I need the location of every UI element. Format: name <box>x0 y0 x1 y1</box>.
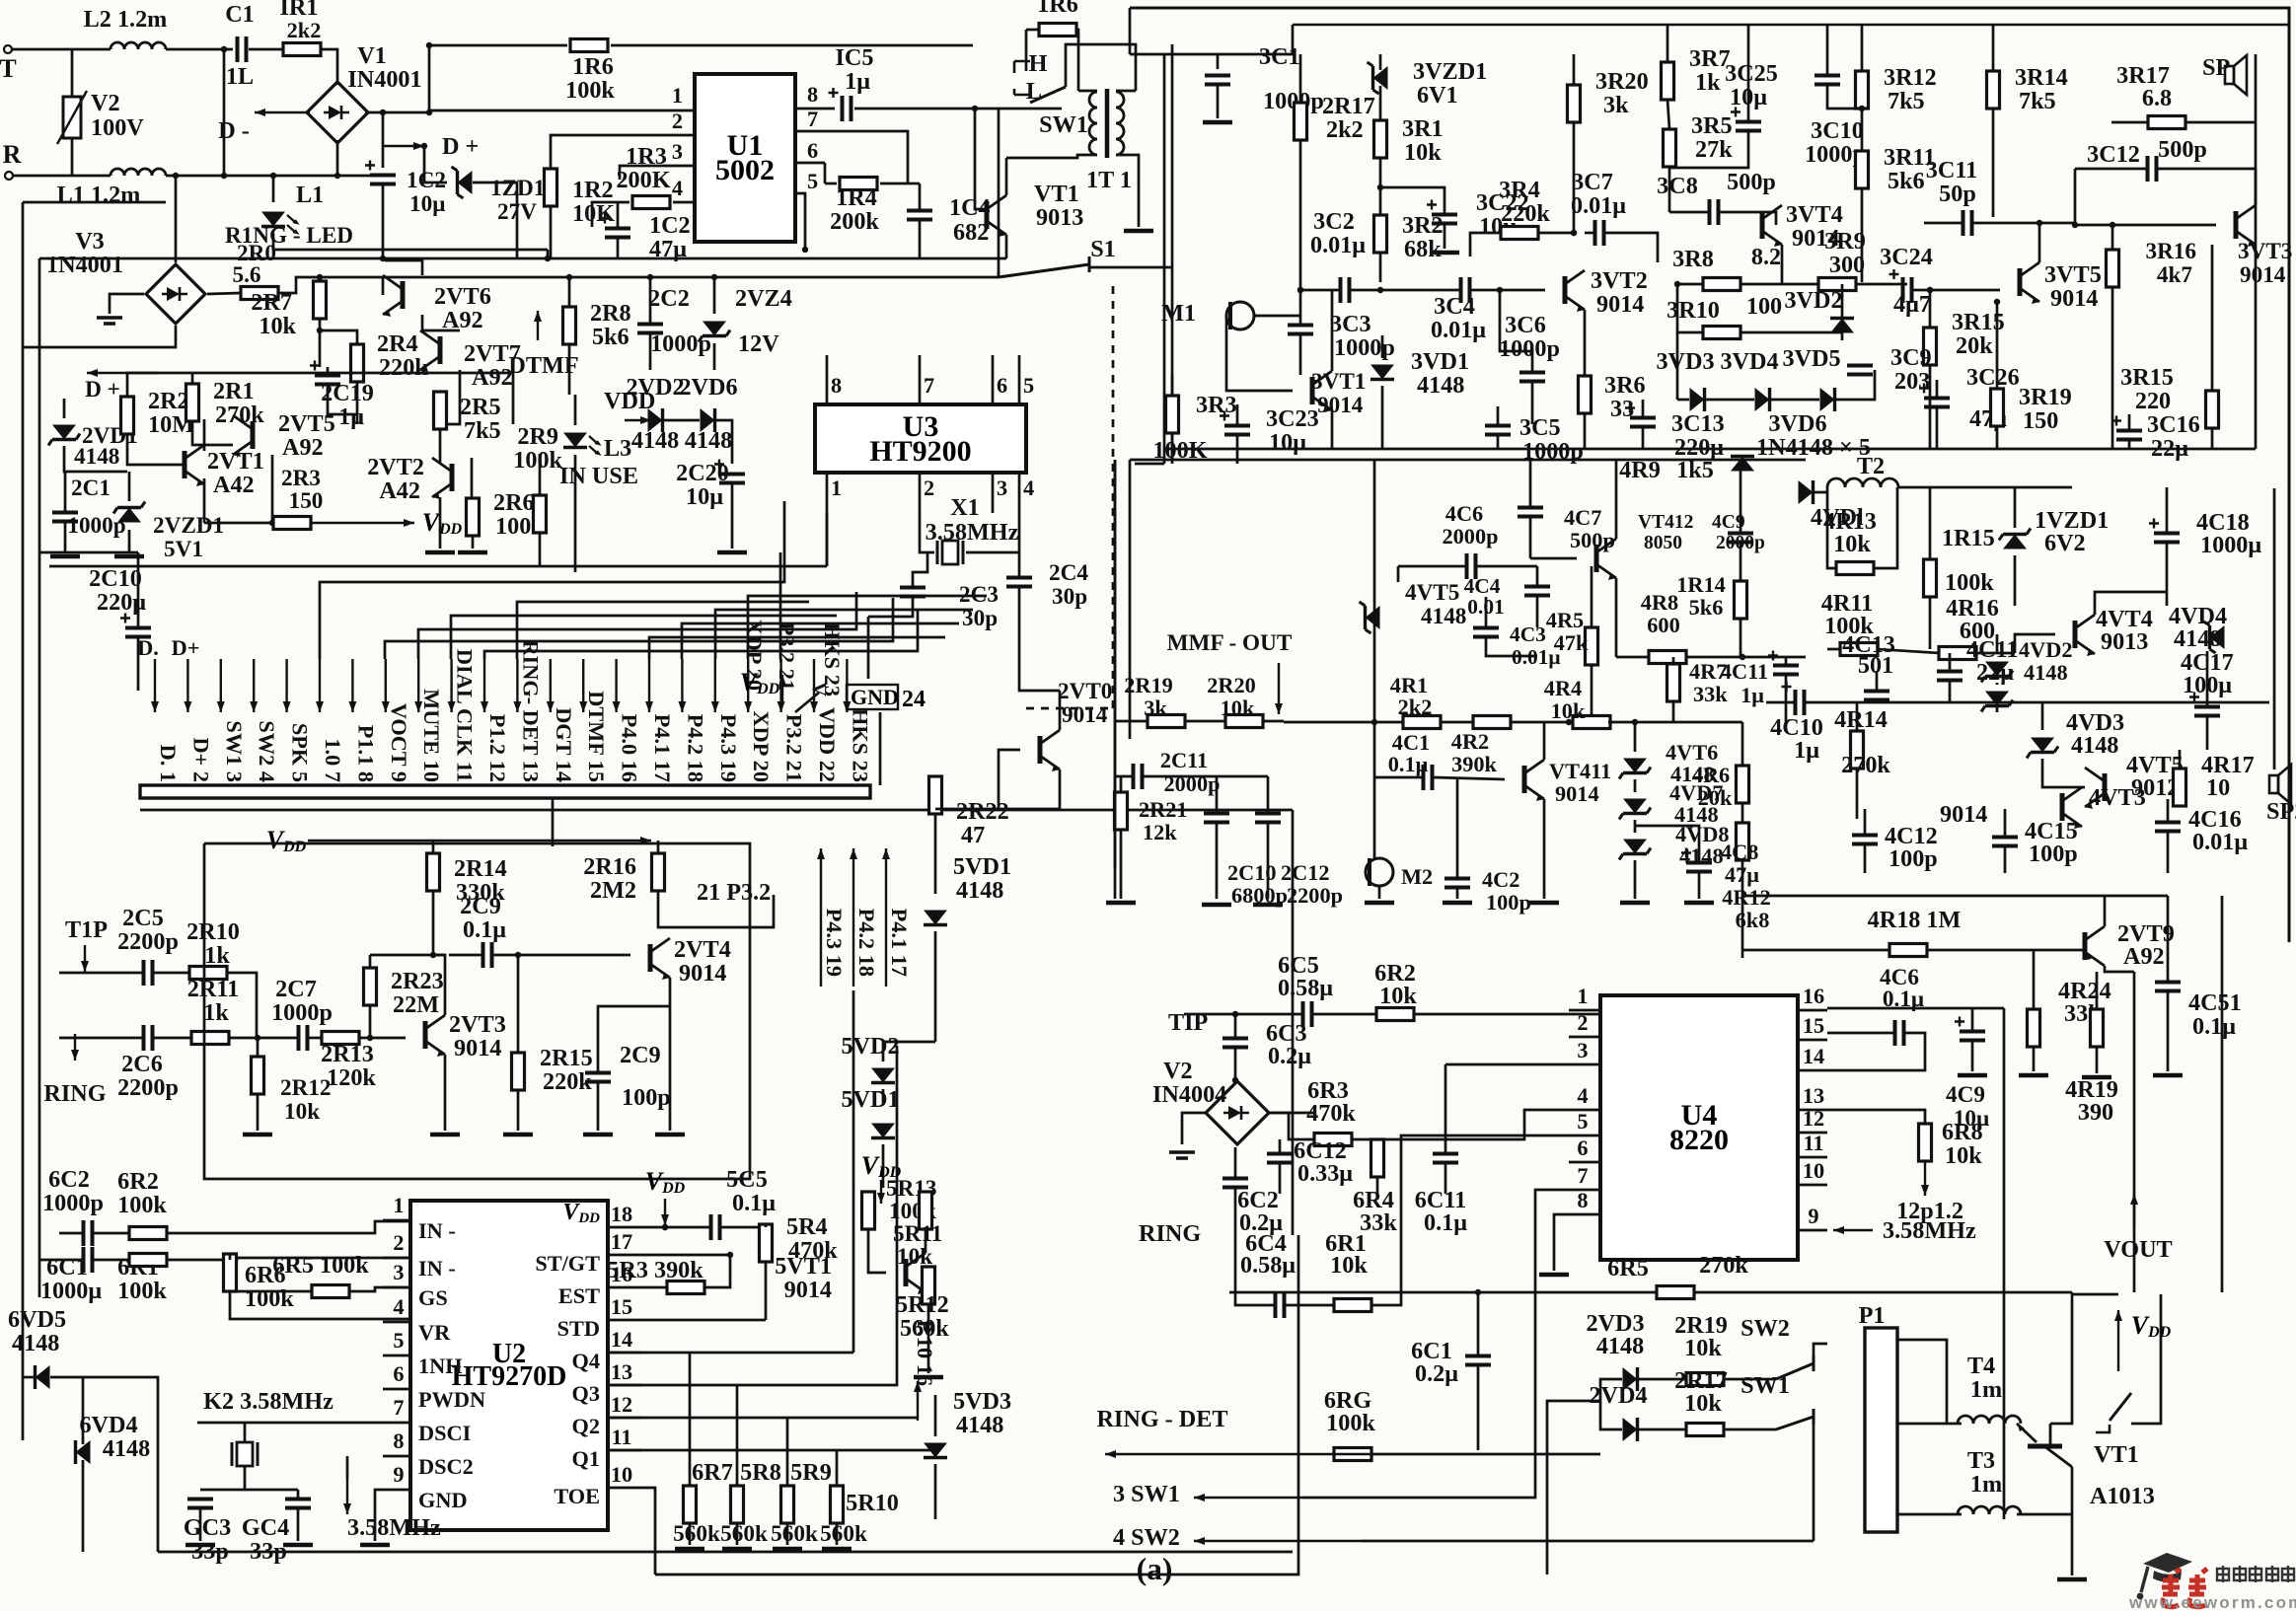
label VDD <box>266 826 307 855</box>
label 4R17 <box>2201 752 2255 778</box>
arrow VDD <box>877 1180 885 1204</box>
svg-text:12: 12 <box>1803 1106 1824 1131</box>
label <box>0 0 1 1</box>
wire main mid rail <box>1806 701 2269 704</box>
svg-text:100k: 100k <box>1326 1410 1375 1436</box>
wire <box>641 1255 730 1287</box>
arrow connector pin <box>547 659 555 712</box>
label 3C8 <box>1657 173 1698 199</box>
svg-text:P4.0 16: P4.0 16 <box>618 714 642 782</box>
wire <box>1144 775 1268 778</box>
resistor 6RG 100k <box>1334 1448 1371 1461</box>
svg-text:2VT3: 2VT3 <box>449 1011 506 1038</box>
label 2C2 <box>648 285 690 312</box>
capacitor 2C1 <box>52 513 78 522</box>
resistor 3R5 <box>1664 129 1676 167</box>
junction <box>317 328 323 333</box>
svg-text:IN -: IN - <box>418 1218 456 1243</box>
label 3R2 <box>1402 212 1444 239</box>
label RING - DET <box>1096 1406 1227 1432</box>
wire <box>550 205 553 258</box>
label 4VD3 <box>2066 709 2124 736</box>
label 20k <box>1698 785 1733 810</box>
svg-text:10k: 10k <box>1379 983 1417 1009</box>
label 10μ <box>1479 213 1517 240</box>
capacitor 6C4 0.58u <box>1276 1292 1285 1318</box>
label 6R2 <box>117 1168 159 1195</box>
wire <box>2179 750 2182 769</box>
capacitor 6C2 <box>84 1220 93 1246</box>
svg-text:2C11: 2C11 <box>1160 748 1208 772</box>
wire pin14 loop <box>1827 1033 1925 1070</box>
label 3VT4 <box>1786 201 1843 228</box>
wire <box>1470 233 1502 256</box>
arrow D+ <box>87 369 158 377</box>
label 4 <box>1577 1083 1588 1108</box>
svg-text:3C5: 3C5 <box>1519 414 1561 441</box>
label 11 <box>611 1425 631 1449</box>
svg-text:1000μ: 1000μ <box>2200 532 2261 558</box>
label 2k2 <box>1326 116 1364 143</box>
label 10k <box>1551 698 1586 723</box>
svg-text:MUTE 10: MUTE 10 <box>419 689 444 782</box>
wire <box>1444 1064 1447 1153</box>
label SW1 3 <box>222 720 247 782</box>
label 390 <box>2078 1099 2113 1126</box>
wire <box>328 386 357 414</box>
svg-text:V3: V3 <box>75 228 105 255</box>
junction <box>221 173 227 179</box>
capacitor 4C9 10u <box>1955 1017 1985 1041</box>
wire <box>1897 1340 1947 1424</box>
capacitor 5C5 0.1u <box>711 1214 720 1240</box>
svg-text:6C2: 6C2 <box>48 1166 90 1193</box>
svg-text:P3.2 21: P3.2 21 <box>782 714 807 782</box>
label 3R11 <box>1884 144 1935 171</box>
wire <box>71 49 74 97</box>
arrow VDD rail <box>308 837 651 844</box>
wire <box>2166 544 2169 606</box>
capacitor 3C2 <box>1341 277 1350 303</box>
capacitor 1C2 <box>365 161 396 184</box>
label X1 <box>950 494 980 521</box>
label 2R5 <box>460 394 501 420</box>
arrow VDD <box>661 1199 669 1225</box>
wire <box>64 472 67 512</box>
wire <box>1996 683 1999 685</box>
svg-text:560k: 560k <box>720 1521 768 1547</box>
junction <box>566 274 572 280</box>
label 4k7 <box>2157 262 2192 288</box>
label 1m <box>1970 1471 2002 1498</box>
inductor L2 <box>111 42 166 49</box>
svg-text:6R2: 6R2 <box>117 1168 159 1195</box>
svg-text:1C2: 1C2 <box>407 168 446 193</box>
label 200K <box>616 167 670 193</box>
wire <box>175 176 178 262</box>
wire <box>1234 1049 1237 1080</box>
label 16 <box>611 1262 632 1286</box>
resistor 4R11 100k <box>1840 643 1878 656</box>
wire <box>199 1508 202 1541</box>
wire <box>127 434 185 465</box>
label 2R19 <box>1674 1312 1728 1339</box>
svg-text:P4.3 19: P4.3 19 <box>716 714 741 782</box>
label MUTE 10 <box>419 689 444 782</box>
resistor 2R17b 10k <box>1686 1424 1724 1436</box>
wire U3 pin 6 <box>992 355 995 404</box>
wire <box>424 146 447 183</box>
ground <box>425 550 455 555</box>
svg-text:4148: 4148 <box>631 427 679 454</box>
wire <box>1171 433 1174 464</box>
winding 1T1 primary <box>1089 92 1097 155</box>
wire <box>1672 657 1675 664</box>
svg-text:2R8: 2R8 <box>590 300 631 327</box>
svg-text:3k: 3k <box>1144 696 1167 720</box>
label 2R17 <box>1674 1367 1728 1394</box>
zener 4VD3 <box>2027 738 2058 759</box>
resistor 5R13 <box>862 1192 875 1229</box>
junction <box>1674 281 1680 287</box>
svg-text:1R4: 1R4 <box>836 184 877 211</box>
junction <box>317 274 323 280</box>
svg-text:VOUT: VOUT <box>2104 1236 2172 1263</box>
label 10μ <box>409 191 445 217</box>
wire Q3 <box>608 1046 897 1385</box>
svg-text:4C6: 4C6 <box>1445 501 1483 526</box>
wire <box>320 49 337 85</box>
watermark eeworm logo <box>2137 1553 2192 1599</box>
label 2R4 <box>377 330 418 357</box>
label P3.2 21 <box>775 622 799 691</box>
svg-text:2R16: 2R16 <box>583 853 636 880</box>
ground <box>243 1133 272 1137</box>
wire <box>1299 54 1302 103</box>
wire <box>257 1094 259 1131</box>
wire Q1 <box>608 1449 935 1452</box>
diode 2VD4 <box>1623 1418 1638 1441</box>
svg-text:5C5: 5C5 <box>726 1166 768 1193</box>
svg-text:L3: L3 <box>604 435 631 462</box>
terminal <box>5 172 13 180</box>
wire U3 pin 2 <box>919 473 922 513</box>
label VDD <box>740 668 780 697</box>
label 3C11 <box>1926 157 1977 183</box>
label 1000p <box>650 330 711 357</box>
wire <box>439 497 442 549</box>
label 4148 <box>1670 762 1715 786</box>
label 100k <box>1326 1410 1375 1436</box>
label 33p <box>191 1538 229 1565</box>
svg-text:9014: 9014 <box>1555 781 1599 806</box>
label 6VD5 <box>8 1306 66 1333</box>
transistor 2VT6 <box>383 275 403 317</box>
arrow connector pin <box>711 659 719 712</box>
svg-text:20k: 20k <box>1698 785 1733 810</box>
wire <box>715 420 732 464</box>
capacitor 4C15 100p <box>1992 838 2018 846</box>
label 2R6 <box>493 489 535 516</box>
junction <box>662 1224 668 1230</box>
wire <box>598 1006 670 1072</box>
wire <box>137 552 140 627</box>
svg-text:15: 15 <box>611 1294 632 1319</box>
wire <box>22 202 25 1440</box>
label 12 <box>611 1392 632 1417</box>
svg-text:17: 17 <box>611 1229 632 1254</box>
label 1k <box>1695 69 1721 96</box>
svg-text:P4.2 18: P4.2 18 <box>854 909 879 977</box>
junction <box>545 256 551 261</box>
wire <box>658 891 774 927</box>
diode 5VD2 <box>871 1068 895 1083</box>
wire <box>1370 1453 1600 1456</box>
wire <box>1827 86 1862 109</box>
label 100k <box>889 1199 936 1224</box>
resistor 3R19 <box>1991 389 2004 426</box>
wire <box>592 202 630 227</box>
wire <box>1666 25 1669 62</box>
arrow P4.2 18 <box>850 848 857 987</box>
wire <box>1747 25 1750 121</box>
label 1000p <box>271 999 333 1026</box>
svg-text:220: 220 <box>2135 388 2171 414</box>
ground <box>360 1543 390 1548</box>
label 1μ <box>1794 737 1819 764</box>
label 4148 <box>2024 660 2068 685</box>
label T <box>0 54 17 83</box>
varistor V2 <box>57 91 87 144</box>
wire <box>428 45 431 112</box>
label 2R14 <box>454 855 507 882</box>
wire <box>919 221 922 258</box>
svg-text:4148: 4148 <box>2071 732 2118 759</box>
wire <box>1331 290 1334 371</box>
svg-text:M2: M2 <box>1401 864 1433 889</box>
wire stub <box>1397 566 1400 582</box>
wire <box>197 1422 383 1425</box>
label 2C9 <box>460 893 501 919</box>
svg-text:2R4: 2R4 <box>377 330 418 357</box>
svg-text:3C7: 3C7 <box>1572 169 1613 195</box>
svg-text:1: 1 <box>1577 984 1588 1008</box>
svg-text:10K: 10K <box>572 200 615 227</box>
svg-text:V2: V2 <box>1163 1058 1193 1084</box>
capacitor 2C5 <box>144 960 153 986</box>
wire <box>1537 232 1574 235</box>
label 2R23 <box>391 968 444 994</box>
dashed boundary <box>1112 286 1115 708</box>
label 300 <box>1829 252 1865 278</box>
wire <box>1235 1301 1275 1305</box>
svg-text:500p: 500p <box>1727 169 1776 195</box>
zener 4VT6 <box>1619 759 1651 779</box>
wire left boundary <box>1114 460 1117 899</box>
resistor 1R14 5k6 <box>1735 581 1747 619</box>
junction <box>221 46 227 52</box>
resistor 2R22 <box>929 776 942 814</box>
wire <box>1254 315 1300 318</box>
junction <box>255 1035 260 1041</box>
wire <box>1020 690 1060 693</box>
label 2VT5 <box>278 410 335 437</box>
svg-text:3C1: 3C1 <box>1259 43 1300 70</box>
label 3VZD1 <box>1413 58 1487 85</box>
svg-text:0.1μ: 0.1μ <box>1388 752 1429 776</box>
ground <box>655 1133 685 1137</box>
capacitor 6C1 0.2u <box>1465 1356 1491 1365</box>
svg-text:1000p: 1000p <box>42 1190 104 1216</box>
label 22M <box>393 991 439 1018</box>
wire <box>663 419 700 422</box>
svg-text:1.0 7: 1.0 7 <box>321 738 345 782</box>
junction <box>1475 1289 1481 1295</box>
wire <box>1471 289 1545 292</box>
wire <box>908 183 920 185</box>
svg-text:VT411: VT411 <box>1549 759 1611 783</box>
label 4C16 <box>2188 806 2242 833</box>
label 6R3 <box>1307 1077 1349 1104</box>
junction <box>1497 287 1503 293</box>
arrow T1P <box>81 945 89 972</box>
wire <box>1440 721 1474 724</box>
label 1m <box>1970 1376 2002 1403</box>
arrow connector pin <box>348 659 356 712</box>
label 100k <box>117 1278 167 1304</box>
resistor 4R18 1M <box>1889 944 1927 957</box>
label 2R2 <box>148 388 189 414</box>
wire <box>574 395 577 425</box>
svg-text:3C6: 3C6 <box>1505 312 1546 338</box>
wire <box>1668 167 1671 212</box>
transistor VT412 8050 <box>1596 539 1616 580</box>
wire U4 pin 4 <box>1569 1109 1600 1112</box>
resistor 3R7 <box>1662 62 1674 100</box>
wire <box>348 1287 410 1291</box>
svg-text:2C12: 2C12 <box>1281 860 1330 885</box>
label 1N4001 <box>46 252 123 278</box>
svg-text:11: 11 <box>611 1425 631 1449</box>
arrow P4.3 19 <box>817 848 825 987</box>
label 4C8 <box>1721 840 1758 864</box>
ground <box>50 554 80 559</box>
wire <box>1485 597 1488 627</box>
edge connector P-bus <box>140 785 870 798</box>
svg-text:10: 10 <box>2206 774 2230 801</box>
svg-text:8050: 8050 <box>1644 533 1682 553</box>
label 4148 <box>956 1412 1003 1438</box>
resistor 5R4 <box>760 1224 773 1262</box>
switch S1 <box>999 256 1089 277</box>
svg-text:12V: 12V <box>738 330 779 357</box>
ground <box>1958 1073 1987 1078</box>
label 3C3 <box>1330 311 1371 337</box>
svg-text:4C3: 4C3 <box>1510 622 1546 646</box>
label 1000p <box>1499 335 1560 362</box>
wire <box>568 277 571 307</box>
resistor 3R15 220 <box>2206 391 2219 428</box>
svg-text:P.10 16: P.10 16 <box>913 1320 937 1386</box>
label 16 <box>1803 984 1824 1008</box>
wire U2 pin 4 <box>383 1321 410 1324</box>
label VT412 <box>1638 512 1693 533</box>
wire U4 pin 11 <box>1798 1156 1827 1159</box>
wire <box>59 1232 83 1235</box>
svg-text:5R4: 5R4 <box>786 1213 828 1240</box>
wire <box>257 1038 259 1057</box>
label EST <box>558 1283 600 1308</box>
zener 1ZD1 <box>452 167 473 198</box>
svg-text:D+: D+ <box>172 635 200 660</box>
label P1.1 8 <box>353 725 378 782</box>
svg-text:200K: 200K <box>616 167 670 193</box>
label 0.01 <box>1467 595 1504 619</box>
svg-text:X1: X1 <box>950 494 980 521</box>
label 33 <box>1610 396 1634 422</box>
wire <box>1929 597 1932 649</box>
svg-text:4148: 4148 <box>1596 1333 1644 1359</box>
label 220μ <box>97 589 146 616</box>
wire <box>336 140 339 176</box>
svg-text:6k8: 6k8 <box>1736 908 1770 932</box>
wire U2 pin 10 <box>608 1487 641 1490</box>
label 100k <box>245 1285 294 1312</box>
wire bottom rail <box>158 1551 1293 1554</box>
svg-text:0.1μ: 0.1μ <box>463 916 506 943</box>
label 4C6 <box>1445 501 1483 526</box>
resistor 4R7 33k <box>1667 664 1680 701</box>
wire <box>765 1262 768 1320</box>
wire <box>1723 1428 1776 1431</box>
svg-text:3VD4: 3VD4 <box>1720 348 1778 375</box>
label 7 <box>807 107 818 131</box>
wire <box>2131 1294 2161 1424</box>
svg-text:100p: 100p <box>1889 845 1938 872</box>
resistor 6R7 <box>684 1486 697 1523</box>
wire <box>358 1037 406 1040</box>
svg-text:4148: 4148 <box>103 1435 150 1462</box>
arrow connector pin <box>414 659 422 712</box>
wire <box>1855 283 1907 286</box>
label 1.0 7 <box>321 738 345 782</box>
ground <box>675 1547 704 1552</box>
label 2VT1 <box>207 448 264 475</box>
resistor 2R0 <box>241 287 278 300</box>
label 9014 <box>2240 262 2286 288</box>
label 6 <box>997 373 1007 398</box>
label 6800p <box>1231 883 1288 908</box>
arrow P4.1 17 <box>882 848 890 987</box>
label 560k <box>900 1315 949 1342</box>
wire <box>1720 212 1776 225</box>
wire <box>1536 597 1539 627</box>
svg-text:100k: 100k <box>1945 569 1994 596</box>
wire <box>244 1423 247 1442</box>
label 2VD1 <box>82 423 138 449</box>
wire <box>273 234 548 250</box>
svg-text:270k: 270k <box>1841 752 1890 778</box>
resistor 2R15 <box>512 1053 525 1090</box>
wire <box>1677 399 1689 402</box>
label V3 <box>75 228 105 255</box>
svg-text:HKS 23: HKS 23 <box>820 622 845 696</box>
arrow connector pin <box>678 659 686 712</box>
wire <box>2042 759 2085 787</box>
label 3R5 <box>1691 112 1733 139</box>
wire <box>2273 488 2276 769</box>
junction <box>334 173 340 179</box>
